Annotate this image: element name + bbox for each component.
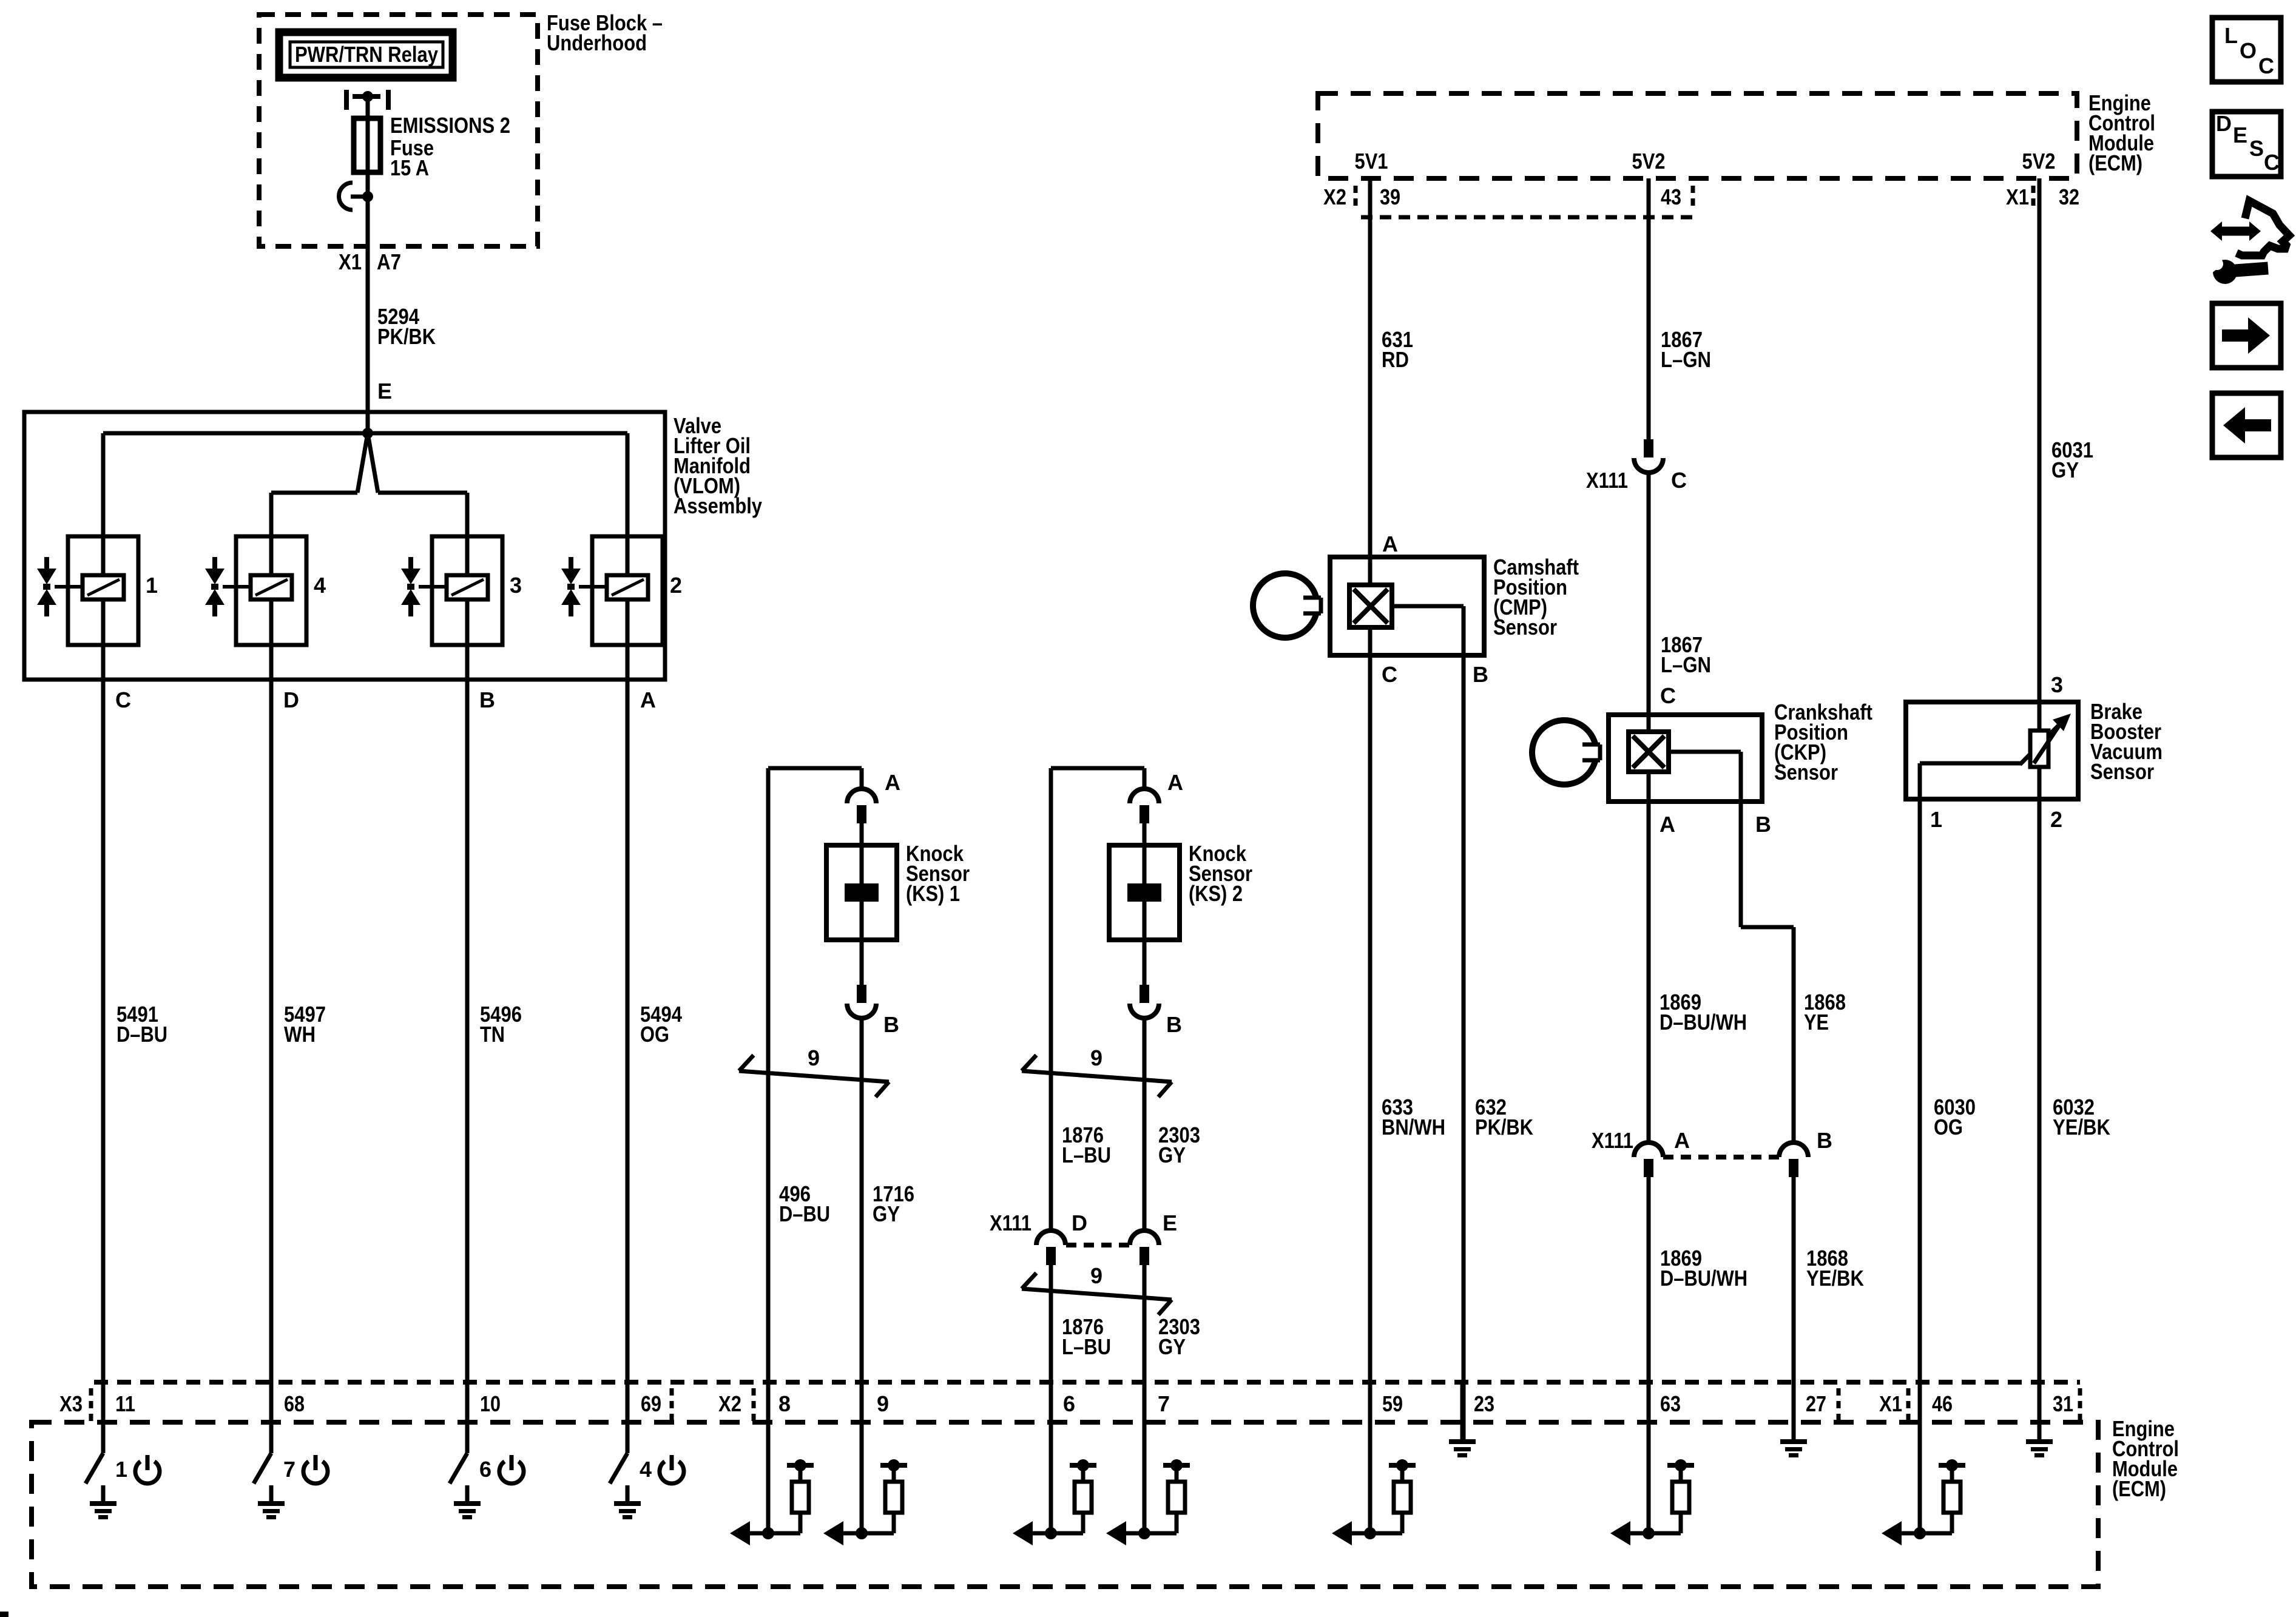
svg-text:A: A xyxy=(1167,770,1183,795)
svg-text:C: C xyxy=(2258,53,2274,78)
svg-text:E: E xyxy=(2233,123,2247,147)
svg-text:X111: X111 xyxy=(1586,468,1628,493)
svg-text:E: E xyxy=(377,379,392,403)
svg-text:OG: OG xyxy=(1934,1115,1963,1139)
svg-text:D–BU: D–BU xyxy=(116,1022,167,1047)
svg-text:X1: X1 xyxy=(1879,1391,1902,1416)
svg-text:4: 4 xyxy=(640,1457,652,1482)
svg-text:YE/BK: YE/BK xyxy=(2053,1115,2110,1139)
svg-text:1: 1 xyxy=(1930,807,1942,832)
svg-text:A: A xyxy=(1660,812,1675,837)
svg-text:PWR/TRN Relay: PWR/TRN Relay xyxy=(295,42,438,67)
svg-text:9: 9 xyxy=(877,1391,889,1416)
svg-text:Sensor: Sensor xyxy=(1493,615,1557,640)
svg-text:E: E xyxy=(1163,1210,1177,1235)
svg-text:BN/WH: BN/WH xyxy=(1382,1115,1445,1139)
svg-text:D–BU/WH: D–BU/WH xyxy=(1660,1010,1747,1035)
svg-text:PK/BK: PK/BK xyxy=(377,324,436,349)
svg-text:YE/BK: YE/BK xyxy=(1806,1266,1864,1291)
svg-text:46: 46 xyxy=(1932,1391,1953,1416)
svg-text:OG: OG xyxy=(640,1022,669,1047)
svg-text:3: 3 xyxy=(2051,672,2063,697)
svg-text:RD: RD xyxy=(1382,347,1409,372)
svg-text:1: 1 xyxy=(146,573,158,598)
svg-text:6: 6 xyxy=(479,1457,491,1482)
svg-text:11: 11 xyxy=(115,1391,135,1416)
svg-text:Assembly: Assembly xyxy=(674,493,762,518)
svg-text:9: 9 xyxy=(808,1045,820,1070)
svg-text:D–BU/WH: D–BU/WH xyxy=(1660,1266,1747,1291)
svg-text:B: B xyxy=(1473,662,1488,687)
svg-text:L: L xyxy=(2224,23,2238,48)
svg-text:TN: TN xyxy=(480,1022,505,1047)
svg-text:Underhood: Underhood xyxy=(547,30,647,55)
svg-text:X2: X2 xyxy=(1323,184,1346,209)
svg-text:C: C xyxy=(1671,468,1687,493)
svg-text:5V2: 5V2 xyxy=(2022,149,2056,174)
svg-text:D: D xyxy=(2216,111,2232,136)
svg-text:9: 9 xyxy=(1090,1263,1102,1288)
svg-text:(ECM): (ECM) xyxy=(2112,1476,2166,1501)
svg-text:7: 7 xyxy=(1158,1391,1170,1416)
svg-text:C: C xyxy=(115,687,131,712)
svg-text:C: C xyxy=(1660,683,1676,708)
svg-text:5V1: 5V1 xyxy=(1355,149,1388,174)
svg-text:L–BU: L–BU xyxy=(1062,1334,1111,1359)
svg-text:X3: X3 xyxy=(59,1391,83,1416)
svg-text:15 A: 15 A xyxy=(390,155,429,180)
svg-text:X2: X2 xyxy=(718,1391,741,1416)
svg-text:L–GN: L–GN xyxy=(1661,652,1711,677)
svg-text:7: 7 xyxy=(283,1457,295,1482)
svg-text:PK/BK: PK/BK xyxy=(1475,1115,1533,1139)
svg-text:68: 68 xyxy=(284,1391,305,1416)
svg-text:39: 39 xyxy=(1380,184,1400,209)
svg-text:L–GN: L–GN xyxy=(1661,347,1711,372)
svg-text:A: A xyxy=(1674,1128,1690,1153)
svg-text:X1: X1 xyxy=(2006,184,2029,209)
svg-text:O: O xyxy=(2240,38,2257,63)
svg-text:27: 27 xyxy=(1806,1391,1826,1416)
svg-text:10: 10 xyxy=(480,1391,501,1416)
svg-text:B: B xyxy=(883,1012,899,1037)
svg-text:B: B xyxy=(1166,1012,1182,1037)
svg-text:EMISSIONS 2: EMISSIONS 2 xyxy=(390,113,510,138)
svg-text:32: 32 xyxy=(2059,184,2079,209)
svg-text:B: B xyxy=(1817,1128,1832,1153)
svg-text:B: B xyxy=(479,687,495,712)
svg-text:(ECM): (ECM) xyxy=(2088,150,2142,175)
svg-text:X111: X111 xyxy=(1592,1128,1633,1153)
svg-text:63: 63 xyxy=(1660,1391,1681,1416)
svg-text:31: 31 xyxy=(2053,1391,2073,1416)
svg-text:8: 8 xyxy=(778,1391,791,1416)
svg-text:GY: GY xyxy=(1158,1143,1186,1167)
svg-text:43: 43 xyxy=(1661,184,1681,209)
svg-text:WH: WH xyxy=(284,1022,316,1047)
svg-text:59: 59 xyxy=(1382,1391,1403,1416)
svg-text:B: B xyxy=(1755,812,1771,837)
svg-text:23: 23 xyxy=(1474,1391,1494,1416)
svg-text:S: S xyxy=(2249,136,2264,161)
svg-text:Sensor: Sensor xyxy=(2090,759,2154,784)
svg-text:D: D xyxy=(283,687,299,712)
svg-text:L–BU: L–BU xyxy=(1062,1143,1111,1167)
svg-text:Sensor: Sensor xyxy=(1774,760,1838,785)
svg-text:4: 4 xyxy=(314,573,326,598)
svg-text:X1: X1 xyxy=(339,249,362,274)
svg-text:A: A xyxy=(1382,532,1398,556)
svg-text:1: 1 xyxy=(115,1457,127,1482)
svg-text:A: A xyxy=(640,687,656,712)
svg-text:(KS) 2: (KS) 2 xyxy=(1189,881,1243,906)
svg-text:GY: GY xyxy=(2051,457,2079,482)
svg-text:C: C xyxy=(1382,662,1397,687)
svg-text:X111: X111 xyxy=(990,1210,1032,1235)
svg-text:3: 3 xyxy=(510,573,522,598)
svg-text:GY: GY xyxy=(1158,1334,1186,1359)
svg-text:2: 2 xyxy=(2050,807,2062,832)
svg-text:9: 9 xyxy=(1090,1045,1102,1070)
svg-text:A7: A7 xyxy=(377,249,401,274)
svg-text:69: 69 xyxy=(641,1391,661,1416)
svg-text:C: C xyxy=(2264,150,2280,175)
svg-text:(KS) 1: (KS) 1 xyxy=(906,881,960,906)
svg-text:D: D xyxy=(1072,1210,1087,1235)
svg-text:YE: YE xyxy=(1804,1010,1829,1035)
svg-text:A: A xyxy=(885,770,900,795)
svg-text:D–BU: D–BU xyxy=(779,1201,830,1226)
svg-text:2: 2 xyxy=(670,573,682,598)
svg-text:5V2: 5V2 xyxy=(1632,149,1666,174)
svg-text:6: 6 xyxy=(1063,1391,1075,1416)
svg-text:GY: GY xyxy=(873,1201,900,1226)
